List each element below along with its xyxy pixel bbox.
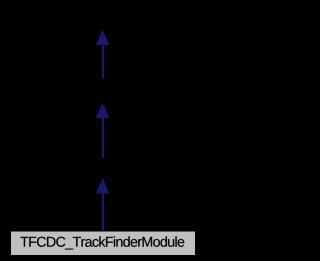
inheritance arrow 3 (bottom): [96, 178, 109, 232]
node label "TFCDC_TrackFinderModule" (text as vector outlines, Liberation Sans metrics): [20, 236, 184, 249]
node TFCDC_TrackFinderModule (current class box): [11, 231, 196, 256]
inheritance arrow 1 (top): [96, 30, 109, 79]
inheritance arrow 2 (middle): [96, 103, 109, 158]
